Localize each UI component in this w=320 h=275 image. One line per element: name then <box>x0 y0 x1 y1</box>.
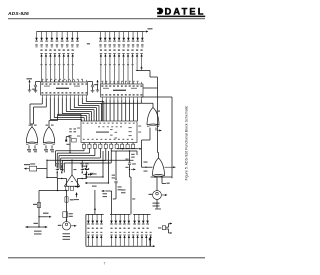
wire U1 pin2 to gate G1 b <box>45 98 47 107</box>
wire U1 pin12 to ladder bit10 <box>85 98 87 102</box>
U3 right outside labels <box>138 126 141 127</box>
capacitor C2 plates <box>91 85 94 87</box>
output diode DB5 <box>110 235 113 246</box>
label Q1 <box>58 225 62 226</box>
gate G1 input stubs <box>28 145 30 148</box>
label R12 <box>33 204 37 205</box>
analog output bus <box>39 190 67 192</box>
IC U2 pin numbers top <box>101 85 103 86</box>
wire left cluster to A1 minus input <box>56 173 58 179</box>
wire bottom bus B <box>86 245 152 247</box>
label G2 pin b <box>51 125 54 126</box>
wire gate G2 output jog <box>48 121 50 128</box>
wire feed center-right <box>130 177 132 214</box>
resistor R8 ladder leg <box>110 143 112 145</box>
current source diode CR1 <box>35 32 38 42</box>
footer rule <box>8 257 205 258</box>
resistor R14 box <box>63 212 68 218</box>
current source diode CR2 <box>40 32 43 42</box>
label R14 <box>69 213 73 214</box>
wire U2 pin10 to ladder bit20 <box>136 100 138 121</box>
label G4 in a <box>144 162 148 163</box>
current source diode CR4 <box>50 32 53 42</box>
IC U2 bottom pin ticks <box>102 97 141 100</box>
resistor R10 ladder leg <box>121 143 123 145</box>
resistor R4 ladder leg <box>88 143 90 145</box>
resistor R3 ladder leg <box>83 143 85 145</box>
label R13 <box>70 199 74 200</box>
output diode DA10 <box>133 214 136 224</box>
label G4 in b <box>144 171 148 172</box>
terminal -5V supply <box>96 80 98 85</box>
DAC R-2R ladder network block U3 <box>81 121 137 143</box>
output diode DA9 <box>127 214 130 224</box>
label jog <box>167 183 170 184</box>
wire U1 pin1 to gate G1 <box>41 98 43 104</box>
current source diode CR11 <box>104 32 107 42</box>
IC U1 switch driver body <box>41 82 88 95</box>
label row above diode bank 4 <box>100 49 102 50</box>
A1 left cluster column a <box>57 165 58 166</box>
capacitor C7 plates <box>128 163 131 165</box>
wire Y1 upper elbow <box>166 226 169 228</box>
current source diode CR14 <box>118 32 121 42</box>
IC U1 pin numbers bottom <box>41 92 43 93</box>
resistor R7 ladder leg <box>105 143 107 145</box>
comparator input cluster lower C8 <box>115 151 117 179</box>
svg-text:ADS-926: ADS-926 <box>7 11 29 17</box>
wire ladder leg 2 to summing node <box>88 148 90 153</box>
switch diode D17 <box>136 54 139 71</box>
switch diode D3 <box>49 54 52 82</box>
label G2 pin a <box>46 125 49 126</box>
wire R9 right to summing node <box>37 168 47 170</box>
wire ladder leg 4 to summing node <box>99 148 101 158</box>
wire Y1 lower elbow <box>166 228 169 230</box>
arrow cluster right <box>131 168 136 170</box>
IC U2 switch driver body <box>101 84 144 97</box>
header rule <box>8 18 205 19</box>
terminal arrow +VS bus <box>145 30 149 32</box>
label A1 pin <box>73 169 76 170</box>
wire left cluster down to bus <box>57 179 59 191</box>
svg-text:DATEL: DATEL <box>165 7 206 17</box>
XOR gate G3 <box>147 108 159 127</box>
current source diode CR18 <box>136 32 139 42</box>
A1 left cluster column b <box>61 165 62 166</box>
labels above bottom rows <box>121 189 126 190</box>
terminal +V mid <box>75 193 77 198</box>
wire right vertical bus A <box>157 77 159 153</box>
wire long rail upper <box>117 148 138 150</box>
terminal analog out left <box>24 168 29 170</box>
label C1 <box>32 89 36 90</box>
ground below +5V terminal <box>28 90 32 92</box>
polarized cap C4 blob <box>65 140 67 142</box>
current source diode CR16 <box>127 32 130 42</box>
label Q2 <box>149 194 154 195</box>
wire U1 pin9 to ladder bit7 <box>73 98 75 108</box>
output diode DA11 <box>138 214 141 224</box>
IC U1 pin numbers top <box>41 83 43 84</box>
switch diode D18 <box>140 54 143 71</box>
wire long rail lower <box>111 150 137 152</box>
wire U1 pin7 to ladder bit5 <box>65 98 67 112</box>
bottom bus arrow <box>152 245 156 247</box>
current source Q2 circle <box>153 191 162 200</box>
terminal ref left <box>26 226 30 228</box>
A1 offset trim boxes <box>66 186 69 190</box>
op-amp A1 label <box>71 181 73 182</box>
current source diode CR12 <box>108 32 111 42</box>
capacitor C1 plates <box>34 85 37 87</box>
output diode DB3 <box>96 235 99 246</box>
G4 left input wire <box>142 166 153 168</box>
IC U1 bottom pin ticks <box>42 95 86 98</box>
wire ladder leg 6 to summing node <box>110 148 112 163</box>
resistor R9 ladder leg <box>116 143 118 145</box>
label C2 <box>94 84 98 85</box>
output diode DB11 <box>136 235 139 246</box>
arrow Q2 output <box>162 194 168 196</box>
A1 right cluster column b <box>86 165 87 166</box>
U3 top pin numbers <box>82 123 84 124</box>
wire G4 output <box>165 166 176 168</box>
arrow ref branch <box>48 216 52 218</box>
wire U2 pin3 to ladder bit13 <box>109 100 111 121</box>
ref labels below <box>34 231 42 232</box>
node Q1 top <box>66 219 67 220</box>
switch diode D9 <box>100 54 103 84</box>
arrow G3 lower <box>157 129 162 131</box>
output diode DB2 <box>91 235 94 246</box>
switch diode D12 <box>113 54 116 84</box>
wire to current source Q2 <box>156 177 158 191</box>
current source Q1 circle <box>62 222 70 230</box>
wire U2 pin9 to ladder bit19 <box>133 100 135 121</box>
offset cluster labels <box>69 128 72 129</box>
IC U2 pin numbers bottom <box>101 94 103 95</box>
wire bottom bus segment 1 <box>87 213 103 215</box>
wire bottom-left riser <box>85 214 87 246</box>
label branch <box>43 213 49 214</box>
switch diode D4 <box>54 54 57 82</box>
switch diode D7 <box>67 54 70 82</box>
wire: jog from D17/D18 to right bus <box>136 70 138 72</box>
output diode DA5 <box>110 214 113 224</box>
wire G4 rail jog <box>161 177 163 184</box>
label G1 pin b <box>34 125 37 126</box>
wire bias vertical a <box>102 151 104 177</box>
wire U2 right to bus <box>143 87 158 89</box>
terminal arrow bias b <box>85 182 90 184</box>
switch diode D5 <box>58 54 61 82</box>
wire G3 tip up <box>152 103 154 107</box>
output diode DB8 <box>123 235 126 246</box>
terminal arrow bias a <box>85 176 90 178</box>
wire ref vertical <box>38 191 40 228</box>
label +VS <box>148 28 153 29</box>
wire U2 pin7 to ladder bit17 <box>125 100 127 121</box>
resistor R12 <box>37 203 40 208</box>
resistor R13 <box>65 197 68 202</box>
output diode DA13 <box>146 214 149 224</box>
wire gate G1 output <box>31 124 33 127</box>
wire ladder leg 1 to summing node <box>83 148 85 150</box>
wire comparator rail <box>140 100 142 104</box>
wire offset cluster down <box>69 137 71 153</box>
output diode DB10 <box>132 235 135 246</box>
wire U1 pin5 to ladder bit3 <box>57 98 59 116</box>
label node <box>34 223 38 224</box>
wire: +VS top bus <box>37 31 145 33</box>
wire Q2 down <box>156 199 158 209</box>
output diode DB13 <box>145 235 148 246</box>
svg-text:7: 7 <box>104 262 106 266</box>
arrow A1 out <box>75 186 80 188</box>
terminal arrow bottom center-left <box>102 190 107 192</box>
wire U1 pin6 to ladder bit4 <box>61 98 63 114</box>
output diode DB9 <box>128 235 130 246</box>
terminal +5V supply <box>28 80 30 85</box>
DATEL logo underline <box>157 16 205 18</box>
comparator input cluster upper C7 <box>129 150 130 151</box>
bottom row B labels <box>87 232 89 233</box>
arrow ref right <box>44 226 48 228</box>
current source diode CR17 <box>132 32 135 42</box>
wire G3 bottom stubs <box>149 128 151 133</box>
switch diode D13 <box>118 54 121 84</box>
output diode DA4 <box>100 214 103 224</box>
wire G3 to G4 <box>149 133 151 140</box>
switch diode D14 <box>122 54 125 84</box>
wire U1 pin4 to ladder bit2 <box>53 98 55 118</box>
output diode DA8 <box>123 214 126 224</box>
wire ladder leg 5 to summing node <box>105 148 107 160</box>
switch diode D15 <box>127 54 130 84</box>
resistor R9 horizontal <box>30 166 37 171</box>
capacitor C3 plates <box>68 135 71 137</box>
current source diode CR7 <box>66 32 69 42</box>
wire right cluster to A1 plus input <box>86 173 88 179</box>
U3 inner column labels <box>110 129 113 130</box>
XOR gate G4 <box>153 158 165 177</box>
XOR gate G2 <box>43 127 54 145</box>
U3 left outside labels <box>77 128 80 129</box>
wire U1 pin3 to ladder bit1 <box>49 98 51 120</box>
terminal up-arrow near A1 out <box>75 193 77 197</box>
output diode DA12 <box>142 214 145 224</box>
wire into A1 apex from summing rail <box>71 160 73 175</box>
XOR gate G1 <box>26 127 37 145</box>
label row under diode bank 1 <box>35 44 37 45</box>
A1 right cluster column a <box>82 165 83 166</box>
op-amp A1 triangle <box>64 175 79 186</box>
wire U2 pin6 to ladder bit16 <box>121 100 123 121</box>
crystal Y1 box <box>162 226 165 230</box>
switch diode D11 <box>109 54 112 84</box>
switch diode D8 <box>71 54 74 82</box>
output diode DB4 <box>100 235 103 246</box>
wire node to A1 area <box>47 177 57 179</box>
output diode DA3 <box>96 214 99 224</box>
IC U2 label <box>113 90 126 91</box>
resistor R6 ladder leg <box>99 143 101 145</box>
wire right vertical bus B <box>171 97 173 178</box>
G4 bottom rail <box>151 176 173 178</box>
wire C7 to feed <box>130 176 132 178</box>
wire U1 pin11 to ladder bit9 <box>81 98 83 104</box>
label Y1 <box>158 227 161 228</box>
output diode DB7 <box>119 235 122 246</box>
capacitor C8 plates <box>114 181 117 183</box>
terminal arrows mid-left <box>83 168 87 170</box>
switch diode D2 <box>45 54 48 82</box>
label R9 <box>30 163 35 164</box>
Q1 labels below <box>63 233 71 234</box>
resistor R5 ladder leg <box>94 143 96 145</box>
DATEL logo mark <box>157 8 163 14</box>
wire U1 pin10 to ladder bit8 <box>77 98 79 106</box>
resistor R2 box <box>72 138 77 142</box>
U3 bottom pin labels <box>83 139 85 140</box>
arrow Q1 output <box>71 225 77 227</box>
wire U2 pin8 to ladder bit18 <box>129 100 131 121</box>
output diode DB12 <box>141 235 144 246</box>
output diode DA2 <box>91 214 94 224</box>
wire U2 pin2 to ladder bit12 <box>105 100 107 121</box>
terminal bottom right <box>149 238 151 240</box>
terminal arrow right of cluster <box>88 173 92 175</box>
ground below -5V terminal <box>96 90 100 92</box>
switch diode D16 <box>131 54 134 84</box>
current source diode CR13 <box>113 32 116 42</box>
output diode DB1 <box>87 235 90 246</box>
wire bottom bus segment 2 <box>110 213 130 215</box>
output diode DB6 <box>115 235 118 246</box>
U3 second label row <box>98 126 100 127</box>
switch diode D6 <box>63 54 66 82</box>
IC U1 top pin ticks <box>42 80 86 82</box>
wire C1 to U1 <box>36 81 41 83</box>
wire bias vertical b <box>108 151 110 183</box>
current source diode CR9 <box>76 32 79 42</box>
label terminal <box>24 164 30 165</box>
output diode DA6 <box>114 214 117 224</box>
current source diode CR8 <box>71 32 74 42</box>
label row mid bank 4 <box>100 64 102 65</box>
svg-text:Figure 5. ADS-926 Functional B: Figure 5. ADS-926 Functional Block Schem… <box>185 105 189 180</box>
wire summing rail <box>47 159 134 161</box>
wire ref bottom rail <box>26 226 48 228</box>
label mid bus <box>87 43 90 44</box>
ground below C2 <box>91 91 95 93</box>
current source diode CR6 <box>61 32 64 42</box>
label row above U2 <box>102 81 104 82</box>
IC U2 top pin ticks <box>102 82 141 84</box>
label row above U1 <box>42 79 44 80</box>
wire feed segment 1 <box>94 190 96 214</box>
current source diode CR3 <box>45 32 48 42</box>
resistor R11 ladder leg <box>127 143 129 145</box>
current source diode CR19 <box>141 32 144 42</box>
Q2 value labels <box>153 203 160 204</box>
wire U2 pin5 to ladder bit15 <box>117 100 119 121</box>
label row above diode bank 3 <box>40 49 42 50</box>
gate G2 input stubs <box>45 145 47 148</box>
wire bottom bus segment 3 <box>133 213 150 215</box>
current source diode CR10 <box>99 32 102 42</box>
label G3 <box>157 111 161 112</box>
current source diode CR5 <box>56 32 59 42</box>
U3 center label <box>96 132 109 133</box>
wire U2 pin4 to ladder bit14 <box>113 100 115 121</box>
wire Q1 vertical <box>66 191 68 222</box>
clock label <box>155 208 161 209</box>
current source diode CR15 <box>122 32 125 42</box>
label row mid bank 3 <box>41 64 43 65</box>
output diode DA7 <box>119 214 122 224</box>
rail arrow <box>138 148 142 150</box>
wire U2 pin1 to ladder bit11 <box>101 100 103 121</box>
output diode DA1 <box>87 214 90 224</box>
label row under diode bank 2 <box>99 44 101 45</box>
output diode DB14 <box>149 235 152 246</box>
wire U1 pin8 to ladder bit6 <box>69 98 71 110</box>
wire feed center-left <box>111 191 113 214</box>
wire G4 tip up <box>158 153 160 159</box>
bottom mid label row <box>87 228 89 229</box>
switch diode D10 <box>104 54 107 84</box>
resistor R12 ladder leg <box>132 143 134 145</box>
label offset <box>66 144 69 145</box>
U3 right column labels <box>129 127 132 128</box>
node ref branch <box>38 216 39 217</box>
wire offset rail <box>58 113 82 115</box>
IC U1 label <box>56 88 69 89</box>
label G1 pin a <box>29 125 32 126</box>
switch diode D1 <box>40 54 43 82</box>
ground below C1 <box>34 91 38 93</box>
wire ladder leg 3 to summing node <box>94 148 96 155</box>
